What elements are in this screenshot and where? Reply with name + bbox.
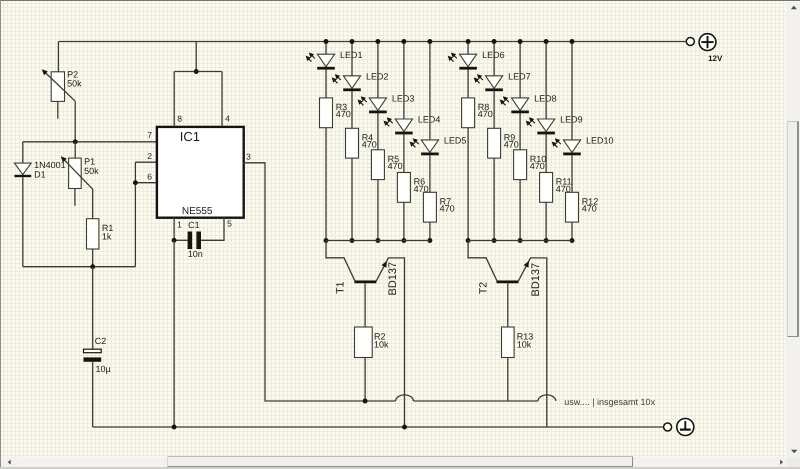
wire LED3 anode lead	[377, 42, 379, 98]
svg-text:BD137: BD137	[530, 263, 542, 297]
wire pin 2	[135, 161, 157, 163]
LED LED2	[343, 76, 360, 89]
junction LED6 rail	[466, 39, 471, 44]
LED7 light arrows	[479, 76, 483, 80]
wire LED2 anode lead	[351, 42, 353, 76]
LED LED7	[486, 76, 503, 89]
wire D1 cathode down	[22, 177, 24, 267]
LED LED5	[421, 140, 438, 153]
wire R5 bottom	[377, 180, 379, 241]
junction R8 rail	[466, 238, 471, 243]
wire LED group rail	[326, 240, 430, 242]
wire LED5 cathode to R7	[429, 155, 431, 192]
svg-text:50k: 50k	[67, 78, 82, 88]
wire R6 bottom	[403, 202, 405, 240]
svg-text:10k: 10k	[517, 340, 532, 350]
wire R3 bottom	[325, 128, 327, 241]
resistor R13	[502, 327, 515, 358]
wire hop over T2 emitter	[538, 395, 556, 401]
junction R4 rail	[350, 238, 355, 243]
resistor R2	[355, 327, 373, 358]
svg-text:470: 470	[440, 204, 455, 214]
LED9 light arrows	[531, 120, 535, 124]
capacitor C2 (electrolytic)	[84, 349, 102, 353]
wire LED10 anode lead	[571, 42, 573, 140]
vertical scrollbar thumb	[787, 121, 799, 337]
junction LED8 rail	[518, 39, 523, 44]
LED8 light arrows	[505, 99, 509, 103]
svg-text:T1: T1	[334, 281, 346, 293]
junction LED4 rail	[401, 39, 406, 44]
wire R7 bottom	[429, 222, 431, 240]
svg-text:470: 470	[530, 161, 545, 171]
T2 emitter arrow	[524, 261, 529, 268]
wire +12V top rail	[58, 41, 686, 43]
resistor R1	[87, 219, 99, 249]
wire base bus middle	[413, 400, 538, 402]
svg-text:50k: 50k	[84, 166, 99, 176]
wire node to pin 7	[23, 141, 157, 143]
junction LED9 rail	[544, 39, 549, 44]
svg-text:4: 4	[225, 114, 230, 124]
svg-text:LED6: LED6	[482, 50, 505, 60]
LED LED1	[317, 54, 334, 66]
wire pin 4	[221, 72, 223, 127]
wire R9 bottom	[493, 158, 495, 240]
resistor R10	[514, 150, 527, 180]
wire R8 bottom	[467, 128, 469, 241]
wire C2 top lead	[92, 267, 94, 350]
LED LED10	[563, 140, 580, 153]
LED LED6	[460, 54, 477, 66]
svg-text:C2: C2	[95, 336, 107, 346]
wire R4 bottom	[351, 158, 353, 240]
wire LED7 anode lead	[493, 42, 495, 76]
junction LED3 rail	[375, 39, 380, 44]
junction R9 rail	[492, 238, 497, 243]
LED4 light arrows	[389, 120, 393, 124]
svg-text:470: 470	[478, 109, 493, 119]
horizontal scrollbar left button	[3, 457, 17, 468]
resistor R8	[462, 98, 475, 128]
wire LED1 cathode to R3	[325, 69, 327, 98]
diode D1	[14, 163, 31, 175]
resistor R7	[423, 192, 436, 222]
LED6 light arrows	[453, 55, 457, 59]
junction R3 rail	[324, 238, 329, 243]
junction R6 rail	[401, 238, 406, 243]
svg-text:LED5: LED5	[444, 136, 467, 146]
svg-text:12V: 12V	[708, 54, 723, 63]
wire D1 anode	[22, 142, 24, 163]
wire D1/R1/pin2-6 node	[23, 266, 136, 268]
power terminal +12V	[699, 34, 716, 51]
LED5 light arrows	[415, 141, 419, 145]
wire T2 collector	[468, 241, 497, 281]
LED LED4	[395, 119, 412, 132]
window left border	[0, 0, 1, 467]
horizontal scrollbar thumb	[167, 456, 633, 467]
svg-text:LED7: LED7	[508, 72, 531, 82]
wire T2 emitter	[518, 258, 547, 427]
wire hop over T1 emitter	[396, 395, 414, 401]
svg-text:8: 8	[177, 114, 182, 124]
P1 bottom stub	[74, 189, 76, 206]
terminal pad 12V	[686, 38, 694, 46]
LED3 light arrows	[363, 99, 367, 103]
junction LED10 rail	[570, 39, 575, 44]
svg-text:10k: 10k	[374, 340, 389, 350]
junction T1 base bus	[363, 399, 368, 404]
resistor R12	[566, 192, 579, 222]
P2 bottom stub	[57, 101, 59, 118]
wire LED4 cathode to R6	[403, 134, 405, 172]
wire LED7 cathode to R9	[493, 91, 495, 128]
wire R13 to base bus	[507, 358, 509, 402]
svg-text:470: 470	[362, 140, 377, 150]
wire R11 bottom	[545, 202, 547, 240]
window top border	[0, 0, 800, 1]
wire T1 collector	[326, 241, 355, 281]
svg-text:470: 470	[582, 204, 597, 214]
transistor Q1 (T1) base bar	[354, 280, 376, 283]
svg-text:LED4: LED4	[418, 115, 441, 125]
svg-text:6: 6	[147, 172, 152, 182]
svg-text:NE555: NE555	[182, 206, 213, 217]
window bottom strip	[0, 467, 800, 469]
junction pin1/C1	[172, 238, 177, 243]
potentiometer P1	[69, 158, 82, 188]
wire pin1/C1 to ground	[173, 240, 175, 427]
svg-text:7: 7	[147, 130, 152, 140]
capacitor C1	[188, 232, 193, 250]
wire ground rail	[93, 426, 664, 428]
wire pin2/6 tie vertical	[134, 162, 136, 267]
wire pin 1	[173, 217, 175, 240]
junction R5 rail	[375, 238, 380, 243]
wire LED3 cathode to R5	[377, 113, 379, 150]
svg-text:470: 470	[388, 161, 403, 171]
svg-text:1k: 1k	[102, 232, 112, 242]
op-amp U1 / timer IC1 NE555 body	[157, 127, 244, 218]
junction R7 rail	[427, 238, 432, 243]
junction T1 emitter ground	[402, 425, 407, 430]
vertical scrollbar up button	[787, 2, 800, 14]
wire T1 base to R2	[364, 283, 366, 327]
junction R1/C2	[90, 264, 95, 269]
resistor R5	[371, 150, 384, 180]
wire P2 wiper down	[74, 101, 76, 142]
junction LED1 rail	[324, 39, 329, 44]
wire LED10 cathode to R12	[571, 155, 573, 192]
svg-text:LED3: LED3	[392, 94, 415, 104]
T1 emitter arrow	[382, 261, 387, 268]
wire T2 base to R13	[507, 283, 509, 327]
wire R12 bottom	[571, 222, 573, 240]
junction LED5 rail	[427, 39, 432, 44]
svg-text:1: 1	[177, 219, 182, 229]
junction R10 rail	[518, 238, 523, 243]
LED2 light arrows	[337, 76, 341, 80]
potentiometer P2	[51, 72, 64, 102]
LED LED8	[512, 98, 529, 111]
terminal pad GND	[664, 423, 672, 431]
wire LED6 cathode to R8	[467, 69, 469, 98]
wire T1 emitter	[376, 258, 404, 427]
wire R1 bottom	[92, 249, 94, 267]
wire LED1 anode lead	[325, 42, 327, 55]
svg-text:2: 2	[147, 151, 152, 161]
svg-text:BD137: BD137	[387, 262, 399, 296]
transistor Q2 (T2) base bar	[497, 280, 519, 283]
junction Vcc feeder	[194, 69, 199, 74]
vertical scrollbar track	[786, 2, 800, 458]
wire LED8 cathode to R10	[519, 113, 521, 150]
ground terminal	[677, 419, 694, 436]
vertical scrollbar down button	[787, 445, 800, 457]
wire LED9 cathode to R11	[545, 134, 547, 172]
junction R11 rail	[544, 238, 549, 243]
scrollbar corner	[787, 457, 800, 468]
svg-text:IC1: IC1	[180, 129, 200, 144]
wire pin 3 output	[243, 163, 395, 401]
svg-text:LED1: LED1	[340, 50, 363, 60]
resistor R4	[346, 128, 359, 158]
wire pin1 to C1	[174, 239, 188, 241]
svg-text:T2: T2	[477, 282, 489, 294]
wire P2 top lead	[57, 42, 59, 72]
wire pin 5	[201, 217, 224, 240]
wire P1 top lead	[74, 142, 76, 158]
LED1 light arrows	[311, 55, 315, 59]
resistor R3	[320, 98, 333, 128]
resistor R11	[540, 173, 553, 203]
svg-text:LED10: LED10	[586, 136, 614, 146]
svg-text:5: 5	[227, 219, 232, 229]
junction P2/P1/D1/pin7	[73, 139, 78, 144]
resistor R6	[397, 173, 410, 203]
P2 wiper arrow	[45, 72, 75, 101]
wire R2 to base bus	[364, 358, 366, 402]
junction LED2 rail	[350, 39, 355, 44]
svg-text:LED8: LED8	[534, 94, 557, 104]
P1 wiper arrow	[64, 159, 93, 189]
svg-text:usw.... | insgesamt 10x: usw.... | insgesamt 10x	[564, 397, 655, 407]
svg-text:470: 470	[504, 140, 519, 150]
svg-text:10n: 10n	[188, 249, 203, 259]
wire P1 wiper to R1	[92, 189, 94, 219]
wire pin 6	[135, 182, 157, 184]
svg-text:C1: C1	[188, 220, 200, 230]
horizontal scrollbar track	[1, 457, 787, 468]
wire LED8 anode lead	[519, 42, 521, 98]
horizontal scrollbar right button	[776, 457, 788, 468]
svg-text:D1: D1	[34, 169, 46, 179]
svg-text:3: 3	[246, 152, 251, 162]
resistor R9	[488, 128, 501, 158]
LED LED3	[369, 98, 386, 111]
wire Vcc feeder	[195, 42, 197, 72]
wire LED2 cathode to R4	[351, 91, 353, 128]
junction pin1 ground	[172, 425, 177, 430]
wire pin 8	[173, 72, 175, 127]
junction LED7 rail	[492, 39, 497, 44]
svg-text:470: 470	[336, 109, 351, 119]
wire pin8-pin4 connector	[174, 71, 222, 73]
wire R10 bottom	[519, 180, 521, 241]
svg-text:10µ: 10µ	[96, 364, 111, 374]
LED10 light arrows	[557, 141, 561, 145]
junction pin2/6	[133, 180, 138, 185]
wire LED5 anode lead	[429, 42, 431, 140]
wire LED4 anode lead	[403, 42, 405, 120]
junction R12 rail	[570, 238, 575, 243]
wire LED9 anode lead	[545, 42, 547, 120]
wire C2 bottom lead	[92, 362, 94, 427]
LED LED9	[538, 119, 555, 132]
wire LED6 anode lead	[467, 42, 469, 55]
wire LED group rail	[468, 240, 572, 242]
